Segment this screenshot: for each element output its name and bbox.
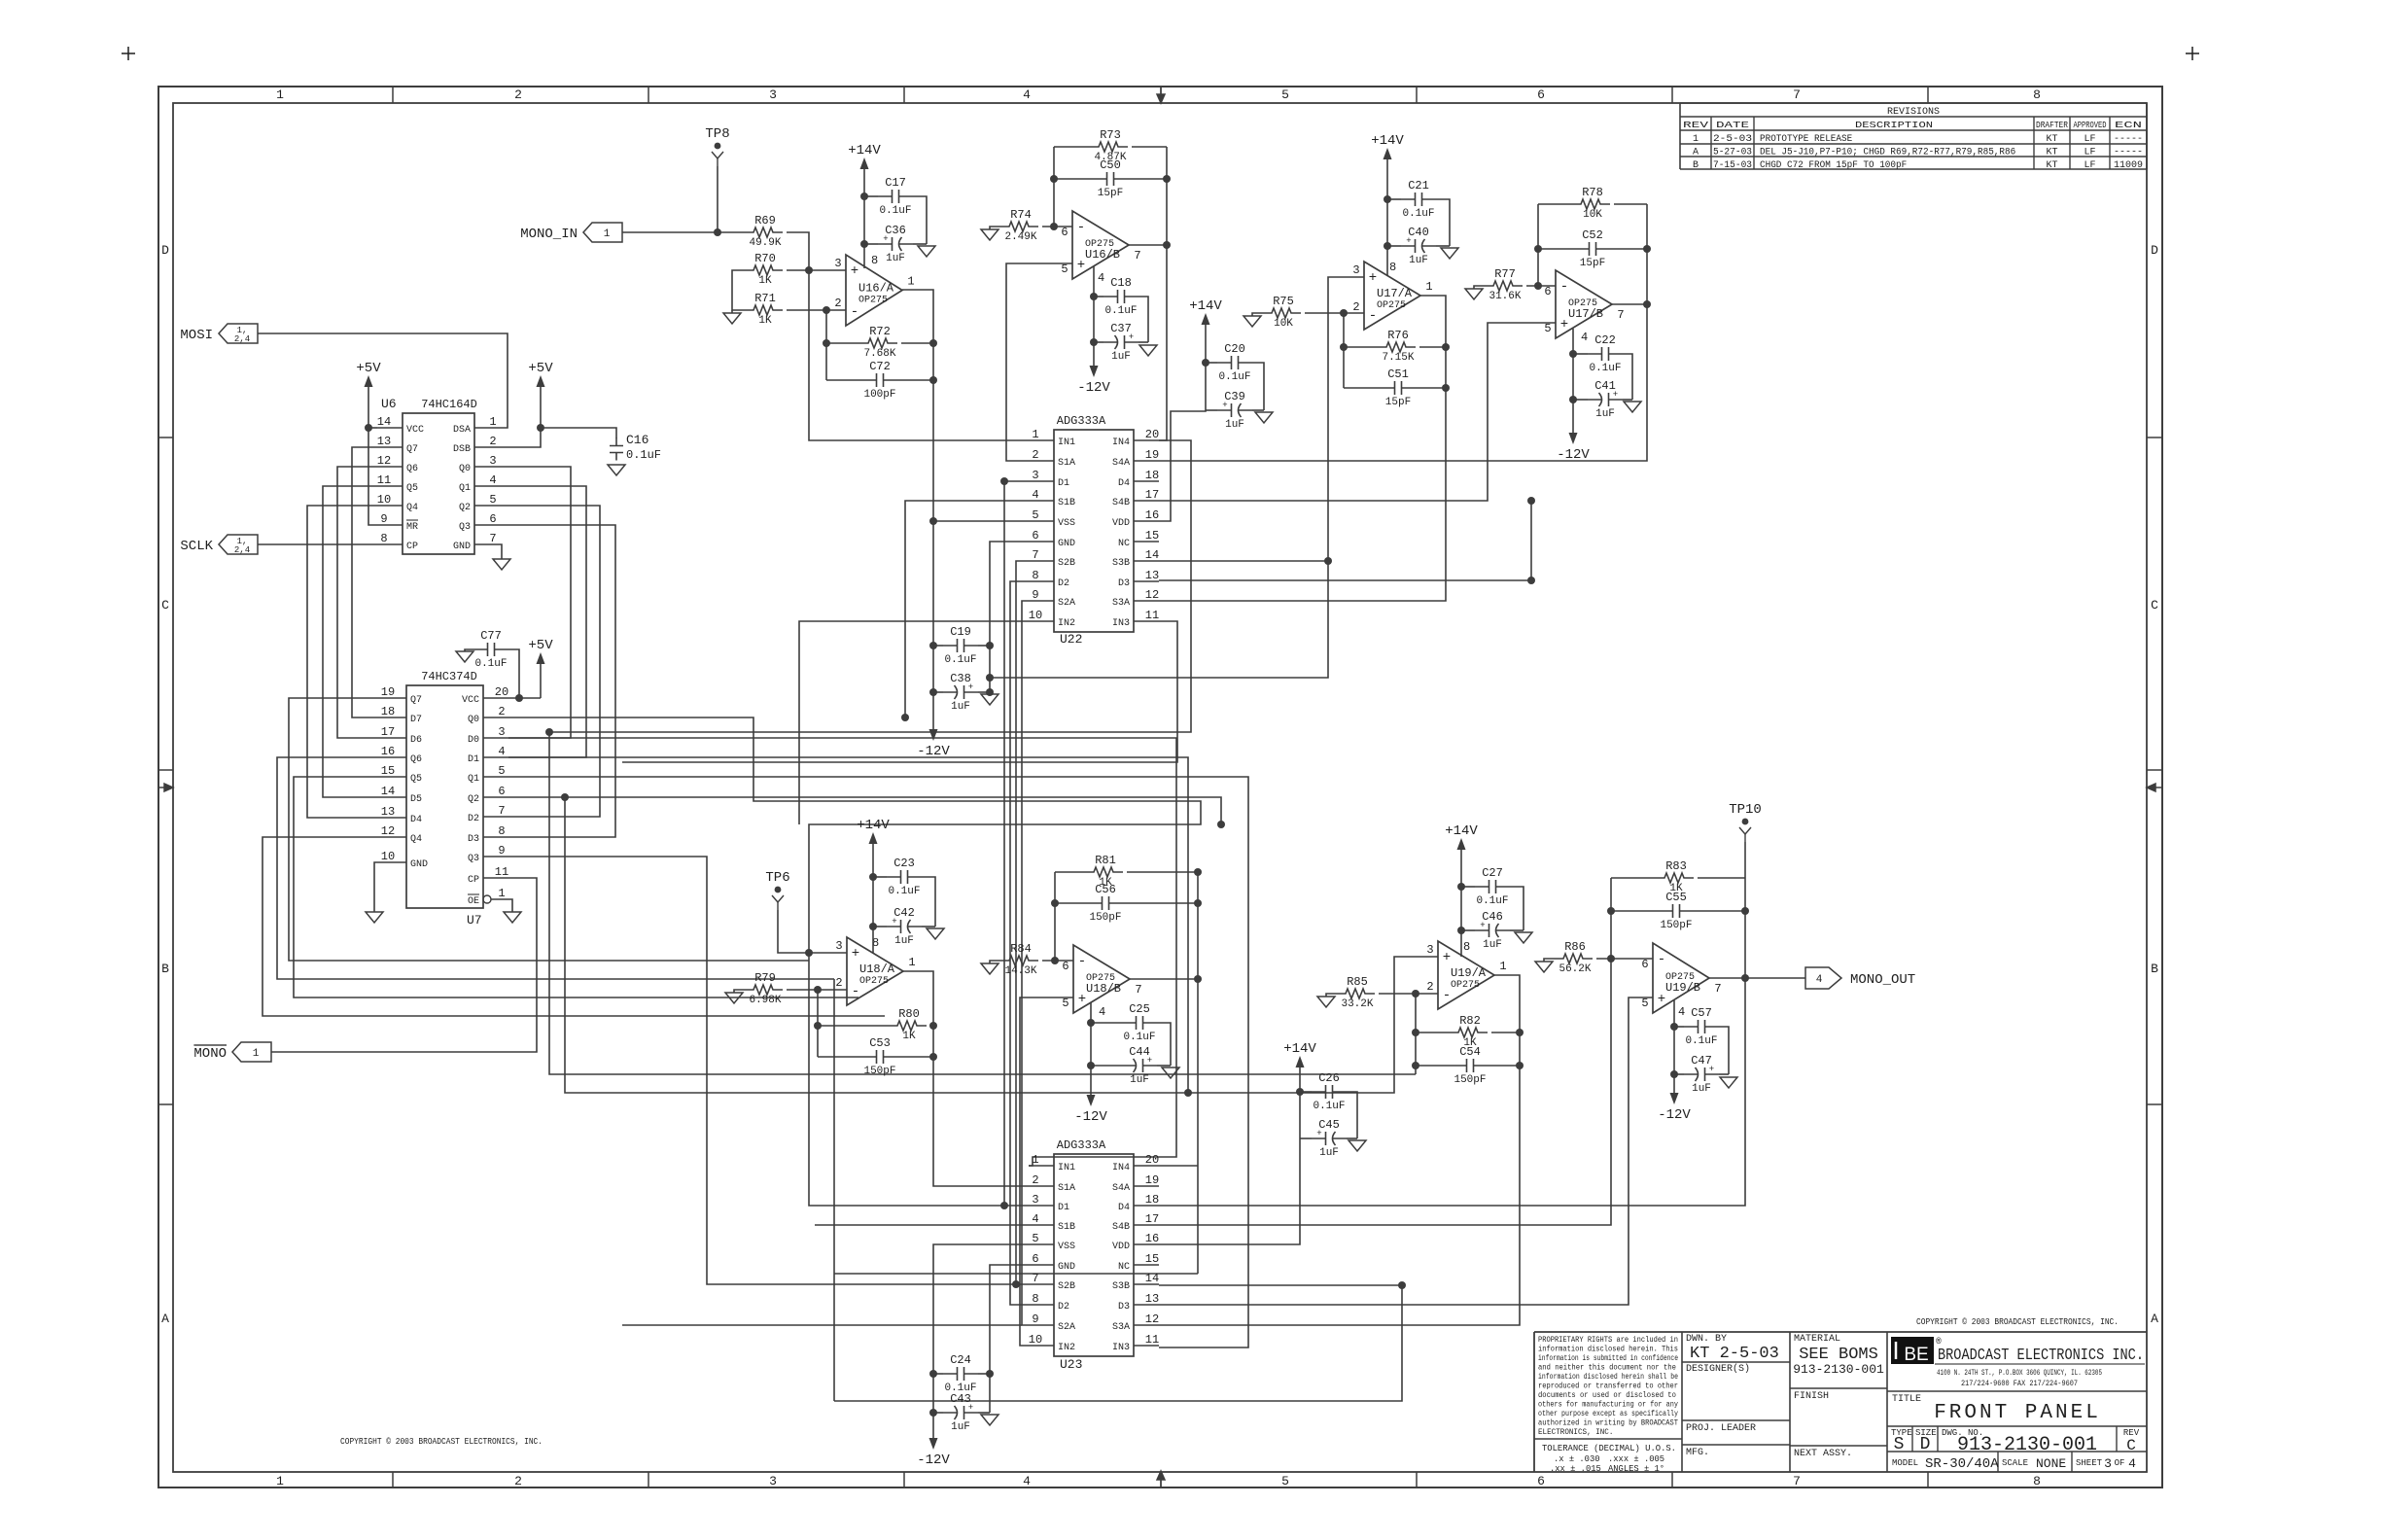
wire U22 IN4 route — [549, 440, 1191, 732]
svg-text:DESIGNER(S): DESIGNER(S) — [1686, 1363, 1750, 1375]
wire C72 right — [897, 379, 933, 381]
svg-text:6: 6 — [1537, 87, 1545, 102]
resistor R74 — [999, 208, 1038, 243]
centering arrow bottom — [1157, 1471, 1165, 1487]
svg-text:S4A: S4A — [1112, 458, 1130, 469]
node node C72 right — [929, 376, 937, 384]
svg-text:0.1uF: 0.1uF — [1402, 208, 1434, 220]
wire U22 GND left — [990, 542, 1029, 692]
svg-text:S: S — [1894, 1435, 1905, 1454]
svg-text:C19: C19 — [950, 625, 971, 639]
svg-text:9: 9 — [1032, 588, 1038, 602]
node node C47 left — [1670, 1070, 1678, 1078]
svg-text:C45: C45 — [1318, 1118, 1340, 1132]
resistor R85 — [1336, 975, 1375, 1010]
svg-text:VSS: VSS — [1058, 1242, 1075, 1252]
svg-text:-----: ----- — [2114, 134, 2143, 145]
wire C50 right — [1128, 178, 1167, 180]
svg-text:D5: D5 — [410, 794, 422, 805]
capacitor C51 — [1381, 367, 1416, 408]
svg-text:8: 8 — [1032, 569, 1038, 582]
svg-text:information disclosed herein.: information disclosed herein. This — [1538, 1345, 1678, 1354]
svg-text:Q3: Q3 — [459, 522, 471, 533]
svg-text:7: 7 — [1032, 1272, 1038, 1285]
svg-text:NC: NC — [1118, 539, 1130, 549]
svg-text:ELECTRONICS, INC.: ELECTRONICS, INC. — [1538, 1428, 1613, 1437]
svg-text:0.1uF: 0.1uF — [626, 448, 661, 462]
wire C27 right — [1510, 887, 1524, 930]
node node R75/fb — [1340, 309, 1348, 317]
ground C39 — [1255, 412, 1273, 423]
wire U22 S2A route — [1022, 601, 1029, 1325]
wire C40 left — [1387, 245, 1401, 247]
capacitor C17 — [878, 176, 913, 217]
svg-text:1K: 1K — [758, 315, 772, 327]
wire C20 left — [1206, 362, 1217, 364]
svg-text:C38: C38 — [950, 672, 971, 685]
svg-text:5: 5 — [1641, 997, 1648, 1010]
node node C25 left — [1087, 1019, 1095, 1027]
wire U17A pin3 route — [990, 277, 1364, 678]
wire C43 left — [933, 1412, 943, 1414]
wire U19B pin4 down — [1673, 1000, 1675, 1085]
capacitor C43 — [943, 1392, 978, 1433]
svg-text:VCC: VCC — [406, 425, 424, 436]
resistor R79 — [744, 971, 783, 1006]
svg-text:IN1: IN1 — [1058, 437, 1075, 448]
IC U6 74HC164D — [377, 397, 500, 554]
wire U18B pin5 to U23 IN2 — [1020, 997, 1073, 1346]
svg-text:3: 3 — [769, 87, 777, 102]
svg-text:other purpose except as specif: other purpose except as specifically — [1538, 1409, 1678, 1418]
ground R85 — [1317, 997, 1335, 1007]
registration mark top-left — [122, 47, 135, 60]
svg-text:+14V: +14V — [857, 818, 890, 833]
revisions table — [1680, 103, 2147, 171]
wire U7 Q6 bus — [277, 757, 834, 979]
wire U22 IN2 route — [799, 621, 1029, 824]
svg-text:12: 12 — [377, 454, 391, 468]
wire +14V stem C26 — [1159, 1075, 1300, 1244]
wire C39 left — [1206, 409, 1217, 411]
capacitor C23 — [887, 857, 922, 897]
wire R69 to U22 IN1 — [787, 232, 1029, 440]
svg-text:-: - — [1658, 952, 1665, 967]
node node C54 right — [1516, 1062, 1524, 1069]
ground U7 GND — [366, 912, 383, 923]
node node C57 left — [1670, 1023, 1678, 1031]
wire U16B fb right vertical — [1159, 147, 1167, 440]
power -12V — [917, 721, 950, 759]
svg-text:-12V: -12V — [917, 1452, 950, 1468]
material cells — [1793, 1334, 1884, 1459]
resistor R76 — [1377, 329, 1416, 364]
node node C41 left — [1569, 396, 1577, 403]
svg-text:KT: KT — [2046, 134, 2057, 145]
svg-text:IN3: IN3 — [1112, 1343, 1130, 1353]
svg-text:C40: C40 — [1408, 226, 1429, 239]
wire C26 right — [1347, 1092, 1357, 1138]
wire C39 right — [1252, 409, 1264, 411]
svg-text:20: 20 — [1145, 428, 1159, 441]
wire U19A inv vertical — [1415, 994, 1417, 1074]
svg-text:R79: R79 — [754, 971, 776, 985]
svg-text:-: - — [1560, 279, 1568, 295]
svg-text:MR: MR — [406, 522, 418, 533]
svg-text:S2A: S2A — [1058, 1322, 1075, 1333]
wire C57 left — [1674, 1026, 1684, 1028]
svg-text:A: A — [161, 1312, 169, 1326]
svg-text:OF: OF — [2115, 1458, 2125, 1468]
svg-text:GND: GND — [410, 859, 428, 870]
wire bus vertical to S3B return — [833, 979, 835, 1401]
node node R84/fb — [1051, 957, 1059, 964]
svg-text:Q0: Q0 — [468, 715, 479, 725]
wire R76 right — [1419, 346, 1446, 348]
svg-text:CP: CP — [468, 875, 479, 886]
svg-text:R74: R74 — [1010, 208, 1032, 222]
node node C46 left — [1457, 927, 1465, 934]
svg-text:TOLERANCE (DECIMAL) U.O.S.: TOLERANCE (DECIMAL) U.O.S. — [1542, 1444, 1676, 1453]
node node C44 left — [1087, 1062, 1095, 1069]
svg-text:4: 4 — [489, 473, 496, 487]
wire U19B fb left vertical — [1610, 878, 1612, 959]
svg-text:S1A: S1A — [1058, 458, 1075, 469]
svg-text:A: A — [1693, 147, 1699, 157]
registration mark top-right — [2186, 47, 2199, 60]
wire U19A output to U23 S3A — [1159, 975, 1520, 1325]
svg-text:1uF: 1uF — [1319, 1147, 1339, 1159]
svg-text:U19/A: U19/A — [1451, 966, 1487, 980]
svg-text:C53: C53 — [869, 1036, 891, 1050]
svg-text:Q6: Q6 — [406, 464, 418, 474]
node node C37 left — [1090, 338, 1098, 346]
capacitor C36 — [878, 224, 913, 264]
wire U17B fb left vertical — [1537, 204, 1539, 286]
svg-text:4: 4 — [2128, 1456, 2136, 1471]
svg-text:12: 12 — [381, 824, 395, 838]
svg-text:U17/B: U17/B — [1568, 307, 1603, 321]
svg-text:C46: C46 — [1482, 910, 1503, 924]
node node S3B — [1324, 557, 1332, 565]
svg-text:20: 20 — [1145, 1153, 1159, 1167]
svg-text:1K: 1K — [902, 1031, 916, 1042]
svg-text:Q5: Q5 — [410, 774, 422, 785]
wire C55 right — [1694, 910, 1745, 912]
capacitor C46 — [1475, 910, 1510, 951]
wire +5V stem U7 — [540, 672, 542, 698]
svg-text:11: 11 — [377, 473, 391, 487]
wire TP8 down — [717, 166, 718, 232]
wire +5V to U6 VCC/MR — [368, 395, 377, 525]
svg-text:C25: C25 — [1129, 1002, 1150, 1016]
wire R72 left — [826, 342, 858, 344]
svg-text:C39: C39 — [1224, 390, 1245, 403]
svg-text:VSS: VSS — [1058, 518, 1075, 529]
test point TP10 — [1729, 802, 1762, 842]
svg-text:1K: 1K — [758, 275, 772, 287]
svg-text:10: 10 — [1029, 1333, 1042, 1347]
svg-text:1uF: 1uF — [1225, 419, 1244, 431]
resistor R83 — [1655, 859, 1694, 894]
svg-text:1: 1 — [1032, 1153, 1038, 1167]
op-amp U17/B — [1544, 270, 1624, 344]
svg-text:11009: 11009 — [2114, 160, 2143, 171]
op-amp U17/A — [1352, 261, 1432, 330]
wire U16B pin5 to U22 S1A — [1006, 263, 1072, 461]
svg-text:DSB: DSB — [453, 444, 471, 455]
capacitor C40 — [1401, 226, 1436, 266]
svg-text:KT: KT — [2046, 147, 2057, 157]
wire C56 right — [1123, 902, 1198, 904]
svg-text:2.49K: 2.49K — [1004, 231, 1036, 243]
svg-text:U16/A: U16/A — [858, 282, 894, 296]
model scale sheet cells — [1892, 1456, 2136, 1472]
svg-text:TP8: TP8 — [705, 126, 729, 142]
node node C50 left — [1050, 175, 1058, 183]
node node U17B out — [1643, 300, 1651, 308]
svg-text:OP275: OP275 — [858, 296, 888, 306]
node node C42 left — [869, 923, 877, 930]
node U6 VCC node — [365, 424, 372, 432]
svg-text:D1: D1 — [468, 754, 479, 765]
svg-text:D4: D4 — [410, 815, 422, 825]
svg-text:7: 7 — [1135, 983, 1141, 997]
wire C55 left — [1611, 910, 1659, 912]
svg-text:0.1uF: 0.1uF — [1685, 1035, 1717, 1047]
svg-text:C52: C52 — [1582, 228, 1603, 242]
power +14V — [1445, 823, 1478, 857]
capacitor C47 — [1684, 1054, 1719, 1095]
svg-text:D: D — [161, 243, 169, 258]
IC U23 ADG333A — [1029, 1138, 1159, 1372]
wire MONO_IN wire — [622, 231, 744, 233]
svg-text:S1B: S1B — [1058, 498, 1075, 508]
svg-text:-: - — [1077, 220, 1085, 235]
svg-text:C27: C27 — [1482, 866, 1503, 880]
svg-text:16: 16 — [1145, 1232, 1159, 1245]
node node C19 left — [929, 642, 937, 649]
wire R77 gnd leg — [1474, 286, 1484, 289]
dwg no cells — [1891, 1428, 2140, 1456]
wire U23 S1B route — [815, 1224, 1029, 1226]
svg-text:17: 17 — [1145, 488, 1159, 502]
svg-text:3: 3 — [1426, 943, 1433, 957]
svg-text:6.98K: 6.98K — [749, 995, 781, 1006]
svg-text:C17: C17 — [885, 176, 906, 190]
svg-text:+: + — [851, 263, 858, 279]
svg-text:+14V: +14V — [1283, 1041, 1316, 1057]
power -12V — [1658, 1085, 1691, 1123]
title cell — [1892, 1394, 2101, 1424]
node node C50 right — [1163, 175, 1171, 183]
capacitor C41 — [1588, 379, 1623, 420]
svg-text:A: A — [2151, 1312, 2158, 1326]
svg-text:0.1uF: 0.1uF — [944, 654, 976, 666]
svg-text:C22: C22 — [1594, 333, 1616, 347]
svg-text:3: 3 — [1032, 1193, 1038, 1207]
svg-text:IN3: IN3 — [1112, 618, 1130, 629]
wire U7 Q0 loop to U18A pin3 — [508, 717, 1201, 953]
svg-text:+: + — [1369, 270, 1377, 286]
svg-text:+5V: +5V — [528, 361, 553, 376]
svg-text:13: 13 — [377, 435, 391, 448]
svg-text:DATE: DATE — [1716, 120, 1749, 130]
wire SCLK to U6 CP — [258, 543, 377, 545]
node node C26 left — [1296, 1088, 1304, 1096]
wire U7 Q4 bus — [263, 837, 885, 1016]
svg-text:6: 6 — [1544, 285, 1551, 298]
svg-text:S3B: S3B — [1112, 558, 1130, 569]
node node R82 left — [1412, 1029, 1419, 1036]
capacitor C25 — [1122, 1002, 1157, 1043]
wire R84 gnd leg — [990, 961, 999, 963]
svg-text:3: 3 — [835, 939, 842, 953]
svg-text:1: 1 — [276, 1474, 284, 1488]
svg-text:74HC164D: 74HC164D — [421, 398, 477, 411]
svg-text:1uF: 1uF — [1409, 255, 1428, 266]
svg-text:VDD: VDD — [1112, 518, 1130, 529]
wire TP10 down to U23 D4 — [1159, 842, 1745, 1206]
wire C45 right — [1347, 1137, 1357, 1139]
wire R71 right — [787, 309, 846, 311]
svg-text:-: - — [852, 984, 859, 999]
svg-text:D6: D6 — [410, 735, 422, 746]
svg-text:4: 4 — [1032, 488, 1038, 502]
IC U22 ADG333A — [1029, 414, 1159, 647]
wire U23 VSS left — [933, 1244, 1029, 1430]
wire C47 left — [1674, 1073, 1684, 1075]
wire U6 Q6 to U7 D6 — [337, 467, 381, 738]
wire U17A output to U22 S3A — [1159, 296, 1446, 601]
svg-text:CP: CP — [406, 542, 418, 552]
svg-text:+: + — [852, 946, 859, 962]
svg-text:-12V: -12V — [1658, 1107, 1691, 1123]
resistor R73 — [1089, 128, 1128, 163]
wire R71 ground stub — [731, 310, 733, 313]
node node U19B out — [1741, 974, 1749, 982]
svg-text:MOSI: MOSI — [180, 328, 213, 343]
ground R86 — [1535, 962, 1553, 972]
svg-text:74HC374D: 74HC374D — [421, 670, 477, 683]
svg-text:C55: C55 — [1665, 891, 1687, 904]
svg-text:C18: C18 — [1110, 276, 1132, 290]
resistor R69 — [744, 214, 783, 249]
capacitor C72 — [862, 360, 897, 401]
svg-text:0.1uF: 0.1uF — [1218, 371, 1250, 383]
power -12V — [917, 1430, 950, 1468]
svg-text:R81: R81 — [1095, 854, 1116, 867]
connector tag SCLK — [180, 535, 258, 555]
ground U7 OE — [504, 912, 521, 923]
svg-text:+14V: +14V — [1371, 133, 1404, 149]
wire +14V stem U19A — [1460, 857, 1462, 957]
svg-text:1: 1 — [1499, 960, 1506, 973]
svg-text:SR-30/40A: SR-30/40A — [1925, 1456, 1999, 1472]
svg-text:D2: D2 — [468, 814, 479, 824]
wire U18B output — [1130, 978, 1198, 980]
wire C18 right — [1138, 297, 1148, 342]
svg-text:ADG333A: ADG333A — [1057, 1138, 1106, 1152]
svg-text:10K: 10K — [1583, 209, 1602, 221]
ground C44 — [1162, 1067, 1179, 1078]
svg-text:PROPRIETARY RIGHTS are include: PROPRIETARY RIGHTS are included in — [1538, 1335, 1678, 1345]
svg-text:C54: C54 — [1459, 1045, 1481, 1059]
svg-text:C77: C77 — [480, 629, 502, 643]
wire R83 left — [1611, 877, 1655, 879]
node node C24 right — [986, 1370, 994, 1378]
svg-text:and neither this document nor: and neither this document nor the — [1538, 1363, 1676, 1373]
op-amp U16/B — [1061, 211, 1140, 285]
ground C42 — [927, 928, 944, 939]
svg-text:GND: GND — [1058, 539, 1075, 549]
node node C38 left — [929, 688, 937, 696]
ground C45 — [1349, 1140, 1366, 1151]
svg-text:MATERIAL: MATERIAL — [1794, 1334, 1840, 1345]
ground R74 — [981, 229, 998, 240]
node node C21 left — [1384, 195, 1391, 203]
svg-text:MONO_OUT: MONO_OUT — [1850, 972, 1915, 988]
svg-text:Q4: Q4 — [406, 503, 418, 513]
svg-text:4100 N. 24TH ST., P.O.BOX 3606: 4100 N. 24TH ST., P.O.BOX 3606 QUINCY, I… — [1937, 1368, 2102, 1378]
svg-text:R84: R84 — [1010, 942, 1032, 956]
svg-text:10: 10 — [381, 850, 395, 863]
wire C18 left — [1094, 296, 1103, 297]
connector tag MONO_OUT — [1805, 967, 1915, 989]
resistor R84 — [999, 942, 1038, 977]
svg-text:NC: NC — [1118, 1262, 1130, 1273]
node U7 VCC node — [515, 694, 523, 702]
svg-text:8: 8 — [2033, 87, 2041, 102]
svg-text:D2: D2 — [1058, 578, 1069, 589]
svg-text:913-2130-001: 913-2130-001 — [1793, 1362, 1884, 1377]
wire U19B output — [1709, 977, 1805, 979]
svg-text:S2A: S2A — [1058, 598, 1075, 609]
power -12V — [1557, 425, 1590, 463]
wire R78 right — [1614, 203, 1647, 205]
svg-text:13: 13 — [1145, 1292, 1159, 1306]
ground C37 — [1139, 345, 1157, 356]
svg-text:Q7: Q7 — [406, 444, 418, 455]
svg-text:6: 6 — [1537, 1474, 1545, 1488]
svg-text:12: 12 — [1145, 1312, 1159, 1326]
op-amp U19/A — [1426, 940, 1506, 1009]
wire +14V stem C20 — [1159, 332, 1206, 521]
wire C17 left — [864, 195, 878, 197]
svg-text:-: - — [1078, 954, 1086, 969]
test point TP6 — [765, 870, 789, 910]
wire R75 gnd leg — [1252, 313, 1262, 316]
wire C77 to U7 VCC — [508, 649, 519, 698]
wire R72 right — [901, 342, 933, 344]
svg-text:APPROVED: APPROVED — [2074, 120, 2107, 130]
wire U7 VCC wire — [508, 697, 541, 699]
svg-text:15: 15 — [381, 764, 395, 778]
svg-text:.xxx ± .005: .xxx ± .005 — [1608, 1454, 1664, 1464]
svg-text:2: 2 — [498, 705, 505, 718]
svg-text:U7: U7 — [467, 913, 482, 927]
wire C19 right — [978, 645, 990, 647]
node node R69/R70 — [805, 266, 813, 274]
node node R74/fb — [1050, 223, 1058, 230]
svg-text:4: 4 — [1816, 974, 1823, 986]
svg-text:DSA: DSA — [453, 425, 471, 436]
test point TP8 — [705, 126, 729, 166]
wire +5V to U6 DSB — [500, 395, 541, 447]
svg-text:0.1uF: 0.1uF — [1313, 1101, 1345, 1112]
svg-text:Q6: Q6 — [410, 754, 422, 765]
svg-text:1: 1 — [908, 956, 915, 969]
